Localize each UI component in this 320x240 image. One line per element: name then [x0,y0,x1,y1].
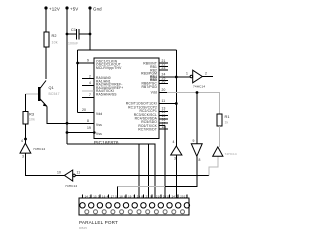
svg-text:C1: C1 [71,28,76,32]
node Gnd [88,6,102,11]
wire Gnd rail [89,8,91,50]
svg-text:4: 4 [173,140,175,144]
svg-text:11: 11 [162,99,166,103]
connector J1 parallel port [79,198,189,230]
wire R2 to Q1 collector [45,47,47,79]
svg-text:4: 4 [21,139,23,143]
svg-text:3: 3 [98,194,100,198]
wire Vdd stub [78,108,94,113]
svg-text:74HC14: 74HC14 [33,147,45,151]
svg-text:10k: 10k [29,118,35,122]
svg-text:19: 19 [128,194,132,198]
svg-text:Vdd: Vdd [96,112,102,116]
svg-text:Gnd: Gnd [93,7,102,12]
wire R3 to buffer [24,124,27,143]
svg-text:Vss: Vss [96,132,102,136]
svg-text:BC547: BC547 [49,92,60,96]
svg-text:9: 9 [193,139,195,143]
transistor Q1 [39,81,59,107]
svg-text:9: 9 [150,194,152,198]
svg-text:+5V: +5V [70,7,78,12]
connector bottom pin numbers [85,194,184,198]
svg-text:Q1: Q1 [49,86,54,90]
svg-text:+12V: +12V [49,7,60,12]
svg-text:10: 10 [158,194,162,198]
svg-text:23: 23 [162,66,166,70]
buffer U1c (up) [20,139,45,159]
svg-text:10: 10 [57,171,61,175]
svg-text:74HC14: 74HC14 [193,85,205,89]
node +12V [44,6,60,11]
svg-text:4: 4 [89,81,91,85]
svg-text:PIC16F876: PIC16F876 [94,140,119,145]
svg-text:1k: 1k [225,121,229,125]
svg-text:DB25: DB25 [79,226,87,230]
resistor R2 [44,32,58,47]
right RB4 RB5 stubs [159,76,168,83]
svg-text:9: 9 [87,59,89,63]
pin labels right [126,62,158,132]
wire buffer to inverter U1e [25,153,64,175]
wire U1e output left [58,174,64,176]
svg-text:R1: R1 [225,115,230,119]
svg-text:100nF: 100nF [68,42,78,46]
svg-text:15: 15 [93,194,97,198]
svg-text:Vdd: Vdd [151,90,157,94]
svg-text:14: 14 [85,194,89,198]
wire +12V rail down to R2 [45,8,47,32]
buffer U1b tri1 (up) [171,140,182,161]
resistor R3 [23,112,35,125]
svg-text:20: 20 [82,108,86,112]
wire U1e input to tri3 [75,174,209,176]
wire +5V to Vss2 stub [66,126,96,134]
wire +5V under box to connector [67,144,155,198]
right RC stubs [159,107,168,123]
svg-text:8: 8 [199,158,201,162]
inverter U1a [186,70,207,88]
svg-text:2: 2 [205,72,207,76]
svg-text:8: 8 [87,119,89,123]
svg-text:74HC14: 74HC14 [225,152,237,156]
svg-text:RB7/PGD: RB7/PGD [141,85,157,89]
buffer U1f tri3 (up) [213,147,237,156]
svg-text:18: 18 [119,194,123,198]
svg-text:1: 1 [186,72,188,76]
wire tri2 to connector [165,156,197,186]
IC U2 PIC16F876 [94,58,159,145]
wire +5V rail [66,8,68,144]
wire to tri2 [196,93,198,144]
svg-text:74HC14: 74HC14 [65,184,77,188]
svg-text:17: 17 [111,194,115,198]
svg-text:1: 1 [82,194,84,198]
svg-text:2: 2 [89,74,91,78]
svg-text:26: 26 [162,80,166,84]
svg-text:11: 11 [167,194,170,198]
svg-text:R3: R3 [29,113,34,117]
right RB stubs [159,59,168,70]
wire RB3 to inverter U1a [159,73,190,79]
svg-text:RA5/AN4/SS: RA5/AN4/SS [96,93,117,97]
svg-text:20: 20 [137,194,141,198]
wire U1a output [202,76,213,78]
svg-text:3: 3 [174,157,176,161]
svg-text:RC7/RX/DT: RC7/RX/DT [138,128,157,132]
svg-text:Vss: Vss [96,123,102,127]
svg-text:5: 5 [115,194,117,198]
svg-text:16: 16 [102,194,106,198]
svg-text:19: 19 [87,126,91,130]
wire base to R3 [25,94,27,111]
pin labels left [96,59,123,136]
buffer U1d tri2 (down) [191,139,202,162]
connector top pins [80,203,190,208]
wire tri1 to connector [175,155,177,198]
resistor R1 [217,114,230,126]
svg-text:PARALLEL PORT: PARALLEL PORT [79,220,118,225]
node +5V [65,6,78,11]
svg-text:6: 6 [124,194,126,198]
right RC7 stub [159,125,168,129]
svg-text:R2: R2 [52,34,57,38]
capacitor C1 [66,28,92,46]
wire RC0 to tri1 line [159,99,178,105]
svg-text:12: 12 [175,194,179,198]
wire Gnd to top bus [78,49,177,51]
svg-text:18: 18 [162,125,166,129]
svg-text:20: 20 [162,88,166,92]
svg-text:7: 7 [89,93,91,97]
wire right drop from top bus to inverter input [175,50,177,146]
svg-text:4: 4 [107,194,109,198]
wire left drop to OSC1 [76,50,94,113]
svg-text:11: 11 [77,171,81,175]
wire Vdd pin to R1 (grey) [159,88,220,114]
wire Q1 emitter to Vss [47,107,94,125]
inverter U1e (left) [57,170,80,188]
connector pin ticks and numbers [82,194,188,198]
wire R1 to tri3 (grey) [219,126,221,147]
wire RC6 down to connector [159,122,165,198]
svg-text:8: 8 [141,194,143,198]
svg-text:2: 2 [89,194,91,198]
svg-text:13: 13 [184,194,188,198]
wire Q1 base (grey) [26,93,39,95]
svg-text:MCLR/Vpp/THV: MCLR/Vpp/THV [96,66,122,70]
svg-text:10k: 10k [52,41,58,45]
left RA stubs [82,74,94,97]
svg-text:7: 7 [133,194,135,198]
svg-text:3: 3 [22,155,24,159]
connector bottom pins [85,210,185,214]
svg-text:21: 21 [146,194,150,198]
